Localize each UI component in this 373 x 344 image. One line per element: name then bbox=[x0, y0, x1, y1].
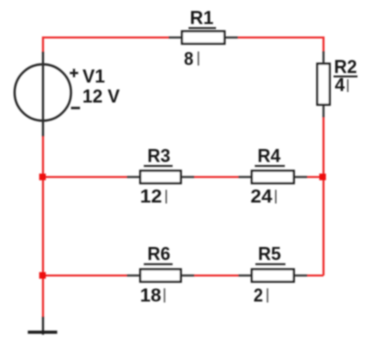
voltage source V1 bbox=[15, 52, 71, 137]
svg-text:8: 8 bbox=[184, 49, 193, 69]
resistor R2 bbox=[317, 51, 329, 118]
svg-text:12 V: 12 V bbox=[82, 87, 119, 107]
node B junction dot (right middle) bbox=[319, 174, 326, 181]
V1 plus sign bbox=[70, 69, 78, 77]
R2 value ohm bar bbox=[347, 79, 349, 92]
resistor R4 bbox=[238, 171, 307, 183]
R4 value ohm bar bbox=[275, 190, 277, 204]
resistor R6 bbox=[127, 269, 195, 281]
svg-text:24: 24 bbox=[251, 187, 273, 207]
R1 label underline bbox=[189, 27, 217, 29]
R3 value ohm bar bbox=[165, 190, 167, 204]
svg-text:2: 2 bbox=[254, 286, 264, 306]
svg-text:4: 4 bbox=[335, 75, 345, 95]
R3 label underline bbox=[144, 165, 173, 167]
resistor R5 bbox=[238, 269, 307, 281]
svg-text:R1: R1 bbox=[190, 8, 214, 28]
svg-text:18: 18 bbox=[140, 286, 161, 306]
svg-text:R6: R6 bbox=[147, 244, 170, 264]
node junction dot (left bottom) bbox=[39, 272, 46, 279]
R2 label underline bbox=[334, 75, 358, 77]
wire top net: V1+ to R1 to R2 bbox=[43, 38, 324, 54]
svg-text:V1: V1 bbox=[83, 67, 106, 87]
resistor R3 bbox=[127, 171, 195, 183]
wire bottom row bbox=[43, 274, 324, 276]
resistor R1 bbox=[169, 31, 239, 43]
wire left vertical: V1- down to ground bbox=[42, 136, 44, 318]
svg-text:R5: R5 bbox=[258, 244, 281, 264]
svg-text:R4: R4 bbox=[258, 146, 281, 166]
wire right vertical: R2 bottom to bottom row bbox=[322, 116, 324, 276]
R5 value ohm bar bbox=[267, 288, 269, 302]
svg-text:12: 12 bbox=[140, 187, 162, 207]
R6 value ohm bar bbox=[164, 288, 166, 302]
svg-text:R2: R2 bbox=[334, 57, 357, 77]
V1 minus sign bbox=[71, 107, 80, 109]
node A junction dot (left middle) bbox=[39, 174, 46, 181]
R1 value ohm bar bbox=[197, 52, 199, 66]
svg-text:R3: R3 bbox=[147, 146, 170, 166]
ground bbox=[28, 317, 57, 335]
R5 label underline bbox=[255, 263, 285, 265]
R6 label underline bbox=[144, 263, 173, 265]
wire middle row: node A to node B bbox=[43, 176, 324, 178]
R4 label underline bbox=[255, 165, 285, 167]
